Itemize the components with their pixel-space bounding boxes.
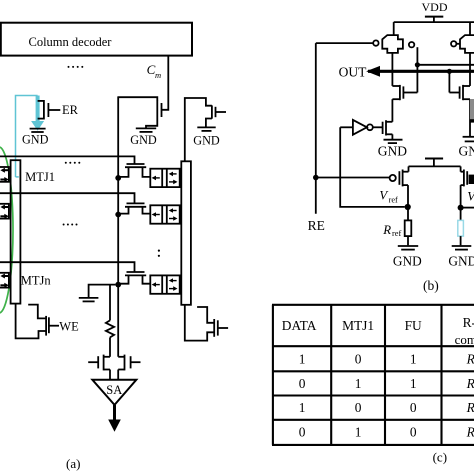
svg-text:(c): (c) — [433, 450, 447, 465]
svg-text:GND: GND — [22, 132, 49, 146]
svg-text:R: R — [466, 400, 474, 415]
svg-text:MTJ1: MTJ1 — [25, 170, 55, 184]
svg-text:GND: GND — [130, 133, 157, 147]
svg-text:WE: WE — [59, 319, 79, 333]
svg-text:ref: ref — [389, 196, 398, 205]
svg-text:1: 1 — [410, 376, 417, 391]
svg-text:R: R — [466, 376, 474, 391]
svg-text:1: 1 — [355, 425, 362, 440]
svg-text:(b): (b) — [423, 278, 439, 293]
svg-text:GND: GND — [459, 143, 474, 158]
svg-text:DATA: DATA — [282, 318, 317, 333]
svg-text:GND: GND — [393, 253, 422, 268]
svg-text:GND: GND — [448, 253, 474, 268]
svg-text:MTJn: MTJn — [21, 274, 52, 288]
svg-text:GND: GND — [378, 143, 407, 158]
svg-text:0: 0 — [410, 400, 417, 415]
svg-text:0: 0 — [355, 352, 362, 367]
svg-text:RE: RE — [308, 218, 325, 233]
svg-text:R: R — [466, 352, 474, 367]
svg-text:comparison: comparison — [455, 332, 474, 347]
svg-text:R: R — [382, 223, 391, 237]
svg-text:(a): (a) — [66, 456, 80, 471]
svg-text:1: 1 — [355, 376, 362, 391]
svg-text:ref: ref — [392, 229, 401, 238]
svg-text:ER: ER — [62, 103, 79, 117]
svg-text:1: 1 — [299, 400, 306, 415]
svg-text:R-R: R-R — [463, 315, 474, 330]
svg-text:MTJ1: MTJ1 — [342, 318, 374, 333]
svg-text:0: 0 — [299, 376, 306, 391]
svg-text:VDD: VDD — [422, 0, 448, 14]
svg-text:1: 1 — [410, 352, 417, 367]
svg-text:1: 1 — [299, 352, 306, 367]
svg-text:0: 0 — [410, 425, 417, 440]
svg-text:0: 0 — [299, 425, 306, 440]
svg-text:0: 0 — [355, 400, 362, 415]
svg-text:R: R — [466, 425, 474, 440]
svg-text:OUT: OUT — [339, 65, 367, 80]
svg-text:V: V — [467, 190, 474, 204]
svg-text:FU: FU — [405, 318, 422, 333]
svg-text:Column decoder: Column decoder — [29, 35, 113, 49]
svg-text:GND: GND — [193, 133, 220, 147]
svg-text:m: m — [155, 70, 161, 80]
svg-text:SA: SA — [106, 383, 122, 397]
